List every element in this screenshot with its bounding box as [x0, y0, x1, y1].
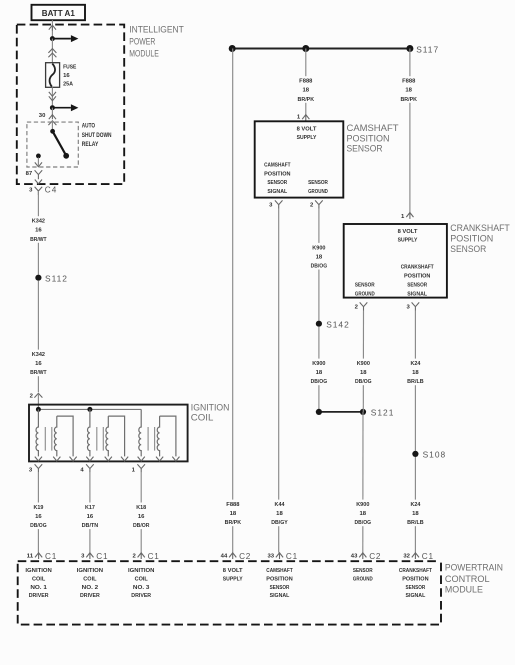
svg-text:F888: F888	[299, 79, 312, 85]
svg-text:POSITION: POSITION	[347, 133, 390, 143]
primary bus wire inside coil box	[38, 408, 141, 410]
svg-text:C1: C1	[286, 552, 298, 561]
wire K18 coil to PCM	[140, 473, 142, 553]
wire K44 camshaft signal to PCM	[278, 209, 280, 553]
wire label K342 16 BR/WT (upper)	[25, 216, 51, 243]
ignition coil pin 2 entry	[30, 393, 43, 408]
svg-text:SIGNAL: SIGNAL	[406, 593, 426, 599]
svg-text:FUSE: FUSE	[63, 64, 76, 70]
svg-text:S117: S117	[416, 44, 439, 54]
wire K19 coil to PCM	[37, 473, 39, 553]
svg-text:C1: C1	[148, 552, 160, 561]
svg-text:BR/PK: BR/PK	[225, 520, 242, 526]
wire label F888 18 BR/PK (right)	[396, 76, 422, 103]
inline connector chevrons below fuse	[49, 92, 56, 96]
svg-text:DB/OR: DB/OR	[133, 523, 150, 529]
svg-text:SIGNAL: SIGNAL	[267, 189, 287, 195]
svg-text:K342: K342	[32, 219, 45, 225]
junction node below fuse	[50, 105, 55, 110]
camshaft sensor pin 3 exit	[269, 200, 282, 209]
PCM internal label at x=362.8	[353, 568, 373, 582]
svg-text:COIL: COIL	[135, 576, 149, 582]
wire label K900 18 DB/OG (middle right)	[350, 359, 376, 386]
bus junction node middle	[302, 45, 309, 52]
svg-text:BATT A1: BATT A1	[42, 8, 75, 18]
intelligent power module label	[129, 24, 184, 58]
svg-text:3: 3	[269, 202, 272, 208]
crankshaft position sensor box	[344, 224, 447, 298]
8-volt supply bus wire	[232, 48, 410, 50]
svg-text:18: 18	[360, 370, 367, 376]
crankshaft position sensor label	[450, 223, 510, 254]
PCM connector C1 pin 11 entry	[27, 552, 57, 561]
camshaft sensor pin 1 entry	[297, 114, 309, 121]
svg-text:18: 18	[276, 511, 283, 517]
svg-text:32: 32	[403, 554, 410, 560]
svg-text:GROUND: GROUND	[308, 189, 328, 195]
svg-text:CAMSHAFT: CAMSHAFT	[266, 568, 293, 574]
wire K900 camshaft ground to splice S142	[318, 209, 320, 321]
svg-text:DRIVER: DRIVER	[29, 593, 49, 599]
wire junction to fuse	[51, 39, 53, 63]
wire F888 bus to PCM 8-volt supply	[232, 49, 234, 553]
svg-text:30: 30	[39, 113, 46, 119]
svg-text:SENSOR: SENSOR	[450, 244, 486, 254]
ignition coil transformer no. 3	[138, 409, 180, 461]
svg-text:K18: K18	[136, 505, 146, 511]
svg-text:POSITION: POSITION	[404, 274, 430, 280]
svg-text:BR/PK: BR/PK	[298, 97, 315, 103]
PCM connector C1 pin 32 entry	[403, 552, 433, 561]
svg-text:11: 11	[27, 554, 34, 560]
svg-text:SUPPLY: SUPPLY	[398, 237, 418, 243]
wire K24 S108 to PCM	[414, 457, 416, 553]
svg-text:K900: K900	[357, 361, 370, 367]
crankshaft sensor pin 3 exit	[407, 302, 420, 311]
crankshaft sensor internal pin labels	[355, 229, 434, 298]
svg-text:K44: K44	[275, 502, 286, 508]
wire K342 S112 to ignition coil	[37, 281, 39, 392]
svg-text:SENSOR: SENSOR	[308, 180, 328, 186]
coil pin 1 exit	[132, 464, 145, 473]
relay terminal 30 connector pair	[48, 115, 56, 130]
svg-text:18: 18	[360, 511, 367, 517]
svg-text:1: 1	[132, 467, 135, 473]
svg-text:3: 3	[81, 554, 84, 560]
svg-text:IGNITION: IGNITION	[25, 568, 51, 574]
svg-text:1: 1	[401, 214, 404, 220]
svg-text:C1: C1	[422, 552, 434, 561]
svg-text:18: 18	[316, 370, 323, 376]
svg-text:CRANKSHAFT: CRANKSHAFT	[450, 223, 510, 233]
svg-text:8 VOLT: 8 VOLT	[398, 229, 418, 235]
svg-text:DB/OG: DB/OG	[311, 264, 328, 270]
svg-text:SENSOR: SENSOR	[406, 585, 426, 591]
PCM connector C1 pin 33 entry	[268, 552, 298, 561]
svg-text:DB/OG: DB/OG	[355, 379, 372, 385]
svg-text:BR/LB: BR/LB	[407, 520, 424, 526]
bus junction node coil 2	[87, 407, 92, 412]
svg-text:18: 18	[412, 370, 419, 376]
svg-text:F888: F888	[402, 79, 415, 85]
wire label K900 18 DB/OG (lower)	[350, 500, 376, 527]
wire label F888 18 BR/PK (left)	[220, 500, 246, 527]
svg-text:3: 3	[29, 187, 32, 193]
svg-text:POSITION: POSITION	[266, 576, 292, 582]
svg-text:18: 18	[230, 511, 237, 517]
svg-text:K900: K900	[312, 245, 325, 251]
wire label K18 16 DB/OR	[128, 503, 154, 530]
wire BATT A1 to intelligent power module	[51, 20, 53, 36]
svg-text:C1: C1	[96, 552, 108, 561]
svg-text:DB/TN: DB/TN	[82, 523, 99, 529]
wire K900 S121 to PCM sensor ground	[362, 412, 364, 553]
svg-text:K900: K900	[356, 502, 369, 508]
svg-text:BR/LB: BR/LB	[407, 379, 424, 385]
svg-text:8 VOLT: 8 VOLT	[223, 568, 243, 574]
fuse FUSE 16 25A	[46, 63, 60, 88]
svg-text:2: 2	[310, 202, 313, 208]
svg-text:COIL: COIL	[191, 413, 214, 423]
wire K900 S142 to splice S121	[318, 327, 320, 412]
svg-text:C2: C2	[239, 552, 251, 561]
splice S117	[406, 44, 439, 54]
svg-text:2: 2	[133, 554, 136, 560]
svg-text:K900: K900	[312, 361, 325, 367]
svg-text:SHUT DOWN: SHUT DOWN	[82, 132, 112, 139]
svg-text:2: 2	[30, 393, 33, 399]
svg-text:F888: F888	[226, 502, 239, 508]
svg-text:SENSOR: SENSOR	[355, 283, 375, 289]
svg-text:43: 43	[351, 554, 358, 560]
svg-text:CAMSHAFT: CAMSHAFT	[347, 123, 400, 133]
svg-text:3: 3	[29, 467, 32, 473]
connector entry at IPM top edge	[49, 25, 56, 31]
svg-text:IGNITION: IGNITION	[128, 568, 154, 574]
svg-text:44: 44	[221, 554, 228, 560]
svg-text:POSITION: POSITION	[450, 234, 493, 244]
PCM internal label at x=279.5	[266, 568, 293, 599]
camshaft position sensor box	[255, 121, 344, 197]
svg-text:COIL: COIL	[83, 576, 97, 582]
svg-text:NO. 3: NO. 3	[133, 585, 150, 591]
junction node on battery feed	[50, 36, 55, 41]
svg-text:16: 16	[35, 514, 42, 520]
wire K24 crankshaft signal to splice S108	[414, 311, 416, 451]
svg-text:CONTROL: CONTROL	[445, 574, 490, 584]
svg-text:18: 18	[412, 511, 419, 517]
svg-text:S112: S112	[45, 273, 68, 283]
svg-text:IGNITION: IGNITION	[191, 403, 230, 413]
svg-text:K24: K24	[410, 502, 421, 508]
wire label K24 18 BR/LB (upper)	[402, 359, 428, 386]
svg-text:DB/GY: DB/GY	[271, 520, 288, 526]
svg-text:SIGNAL: SIGNAL	[270, 593, 290, 599]
svg-text:3: 3	[407, 305, 410, 311]
svg-text:SENSOR: SENSOR	[267, 180, 287, 186]
svg-text:COIL: COIL	[32, 576, 46, 582]
crankshaft sensor pin 1 entry	[401, 213, 414, 221]
PCM internal label at x=141.2	[128, 568, 154, 599]
svg-text:SENSOR: SENSOR	[347, 144, 383, 154]
battery feed BATT A1	[32, 5, 86, 20]
relay terminal 87 connector	[35, 170, 43, 179]
svg-text:POWER: POWER	[129, 36, 155, 46]
connector C4 pin 3	[29, 185, 57, 195]
svg-text:16: 16	[63, 73, 70, 79]
crankshaft sensor pin 2 exit	[355, 302, 368, 311]
coil pin 3 exit	[29, 464, 42, 473]
svg-text:AUTO: AUTO	[82, 122, 95, 129]
svg-text:S142: S142	[326, 320, 350, 330]
inline connector chevrons above fuse	[48, 49, 56, 53]
svg-text:MODULE: MODULE	[129, 48, 159, 58]
ignition coil label	[191, 403, 230, 423]
svg-text:18: 18	[405, 88, 412, 94]
wire fuse to lower junction	[51, 87, 53, 105]
wire label K24 18 BR/LB (lower)	[402, 500, 428, 527]
splice S121 tie wire	[316, 408, 395, 418]
svg-text:SUPPLY: SUPPLY	[297, 135, 317, 141]
svg-text:K342: K342	[32, 352, 45, 358]
camshaft position sensor label	[347, 123, 400, 154]
wire K900 crankshaft ground to S121	[362, 311, 364, 412]
wire label F888 18 BR/PK (middle)	[293, 76, 319, 103]
bus junction node left	[229, 45, 236, 52]
PCM connector C1 pin 2 entry	[133, 552, 160, 561]
svg-text:CAMSHAFT: CAMSHAFT	[264, 162, 291, 168]
svg-text:4: 4	[80, 467, 83, 473]
splice S112	[35, 273, 68, 283]
PCM connector C2 pin 43 entry	[351, 552, 381, 561]
arrow leaving relay box	[35, 162, 42, 166]
powertrain control module boundary (dashed)	[18, 561, 441, 624]
svg-text:C1: C1	[45, 552, 57, 561]
svg-text:SENSOR: SENSOR	[270, 585, 290, 591]
bus junction node coil 1	[36, 407, 41, 412]
wire label K342 16 BR/WT (lower)	[25, 350, 51, 377]
svg-text:DRIVER: DRIVER	[131, 593, 151, 599]
svg-text:POWERTRAIN: POWERTRAIN	[445, 563, 503, 573]
wire F888 S117 to crankshaft sensor	[409, 49, 411, 213]
svg-text:DB/OG: DB/OG	[311, 379, 328, 385]
wire label K900 18 DB/OG (middle left)	[306, 359, 332, 386]
wire label K44 18 DB/GY	[267, 500, 293, 527]
svg-text:K19: K19	[33, 505, 43, 511]
wire F888 bus to camshaft sensor	[305, 49, 307, 115]
arrow leaving IPM box	[35, 180, 42, 184]
relay output contact 87	[36, 154, 41, 166]
svg-text:1: 1	[297, 114, 300, 120]
PCM internal label at x=415.4	[399, 568, 432, 599]
svg-text:2: 2	[355, 305, 358, 311]
wire K342 C4 to splice S112	[37, 191, 39, 275]
fuse value label	[63, 64, 76, 87]
svg-text:33: 33	[268, 554, 275, 560]
feed arrow to other circuits (upper)	[52, 38, 71, 40]
svg-text:INTELLIGENT: INTELLIGENT	[129, 24, 184, 34]
ignition coil transformer no. 1	[35, 409, 77, 461]
auto shut down relay boundary (dashed)	[27, 122, 78, 167]
svg-text:NO. 2: NO. 2	[82, 585, 99, 591]
svg-text:BR/WT: BR/WT	[30, 237, 47, 243]
wire label K17 16 DB/TN	[77, 503, 103, 530]
svg-text:DRIVER: DRIVER	[80, 593, 100, 599]
svg-text:CRANKSHAFT: CRANKSHAFT	[401, 264, 434, 270]
svg-text:MODULE: MODULE	[445, 584, 483, 594]
svg-text:16: 16	[35, 228, 42, 234]
svg-text:SENSOR: SENSOR	[407, 283, 427, 289]
svg-text:SENSOR: SENSOR	[353, 568, 373, 574]
intelligent power module boundary (dashed)	[17, 25, 124, 185]
svg-text:RELAY: RELAY	[82, 141, 99, 148]
wire junction to relay terminal 30	[51, 108, 53, 115]
PCM connector C1 pin 3 entry	[81, 552, 108, 561]
svg-text:18: 18	[316, 254, 323, 260]
svg-text:S121: S121	[371, 408, 395, 418]
splice S108	[412, 450, 446, 460]
ignition coil assembly box	[29, 405, 188, 462]
wire label K19 16 DB/OG	[25, 503, 51, 530]
svg-text:POSITION: POSITION	[264, 171, 290, 177]
svg-text:C4: C4	[45, 185, 57, 194]
camshaft sensor pin 2 exit	[310, 200, 323, 209]
svg-text:C2: C2	[369, 552, 381, 561]
PCM internal label at x=89.9	[77, 568, 103, 599]
svg-text:GROUND: GROUND	[355, 292, 375, 298]
wire K17 coil to PCM	[89, 473, 91, 553]
svg-text:25A: 25A	[63, 82, 73, 88]
splice S142	[316, 320, 350, 330]
camshaft sensor internal pin labels	[264, 127, 328, 196]
svg-text:DB/OG: DB/OG	[30, 523, 47, 529]
svg-text:POSITION: POSITION	[402, 576, 428, 582]
svg-text:CRANKSHAFT: CRANKSHAFT	[399, 568, 432, 574]
svg-text:16: 16	[138, 514, 145, 520]
svg-text:16: 16	[35, 361, 42, 367]
svg-text:DB/OG: DB/OG	[355, 520, 372, 526]
PCM internal label at x=232.7	[223, 568, 243, 582]
svg-text:IGNITION: IGNITION	[77, 568, 103, 574]
feed arrow to other circuits (lower)	[52, 107, 71, 109]
svg-text:87: 87	[26, 171, 33, 177]
svg-text:8 VOLT: 8 VOLT	[297, 127, 317, 133]
svg-text:K17: K17	[85, 505, 95, 511]
PCM connector C2 pin 44 entry	[221, 552, 251, 561]
svg-text:SUPPLY: SUPPLY	[223, 576, 243, 582]
svg-text:S108: S108	[423, 450, 447, 460]
ignition coil transformer no. 2	[86, 409, 128, 461]
svg-text:NO. 1: NO. 1	[30, 585, 47, 591]
powertrain control module label	[445, 563, 503, 595]
auto shut down relay label	[82, 122, 112, 147]
relay switch blade (common to N.O. contact)	[50, 129, 69, 159]
PCM internal label at x=38.6	[25, 568, 51, 599]
svg-text:K24: K24	[410, 361, 421, 367]
svg-text:18: 18	[303, 88, 310, 94]
coil pin 4 exit	[80, 464, 93, 473]
svg-text:BR/WT: BR/WT	[30, 370, 47, 376]
svg-text:BR/PK: BR/PK	[400, 97, 417, 103]
wire label K900 18 DB/OG (upper)	[306, 243, 332, 270]
svg-text:SIGNAL: SIGNAL	[407, 292, 427, 298]
svg-text:GROUND: GROUND	[353, 576, 373, 582]
svg-text:16: 16	[87, 514, 94, 520]
